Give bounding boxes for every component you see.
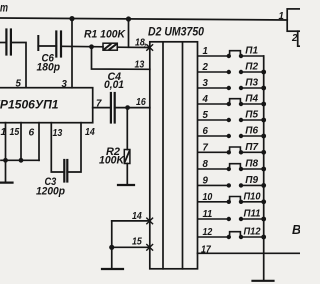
svg-text:П5: П5 (245, 110, 258, 121)
svg-text:11: 11 (203, 209, 213, 220)
svg-text:П10: П10 (244, 191, 261, 202)
switch П3 contacts (227, 86, 244, 90)
wire D2 pin 5 (198, 119, 264, 121)
wire R1 to pin 18 (117, 46, 150, 48)
wire D2 pin 4 (198, 103, 264, 105)
wire top supply rail (0, 18, 287, 20)
IC D2 UM3750 body (150, 42, 198, 269)
wire R2 to ground (126, 164, 128, 185)
node junction C4/R2 (125, 105, 130, 110)
resistor R1 100K (103, 43, 117, 50)
svg-text:2: 2 (291, 33, 298, 44)
svg-text:D2 UM3750: D2 UM3750 (148, 24, 204, 38)
svg-text:15: 15 (10, 127, 20, 138)
svg-text:15: 15 (132, 237, 142, 248)
switch П5 contacts (227, 118, 244, 122)
switch П8 contacts (227, 164, 244, 172)
ground center (102, 268, 123, 270)
wire D2 pin 9 (198, 184, 264, 186)
svg-text:6: 6 (29, 128, 35, 139)
node bus junction row 11 (261, 217, 266, 222)
svg-text:П1: П1 (245, 46, 258, 57)
wire pin 2 of T down and out (298, 31, 301, 46)
node bus junction row 12 (261, 235, 266, 240)
resistor R2 100K (124, 150, 130, 164)
pin 18 arrow (147, 45, 153, 51)
wire pin 15 of D2 (112, 246, 150, 248)
switch П6 contacts (227, 134, 244, 138)
wire pin 6 lead (38, 123, 40, 161)
wire pin 17 output (198, 252, 301, 254)
svg-text:13: 13 (135, 60, 145, 71)
wire D2 pin 10 (198, 201, 264, 203)
svg-text:П3: П3 (245, 78, 258, 89)
IC D1 КР1506УП1 body (0, 88, 93, 123)
svg-text:R1 100K: R1 100K (84, 28, 126, 40)
svg-text:П7: П7 (245, 142, 258, 153)
wire pin 14 of D2 (112, 220, 150, 222)
wire C3 to pin 14 lead (67, 123, 81, 172)
svg-text:16: 16 (136, 97, 146, 108)
wire D2 pin 1 (198, 55, 264, 57)
wire rail drop to pin 3 of D1 (71, 19, 73, 88)
svg-text:П2: П2 (245, 62, 258, 73)
svg-text:2: 2 (202, 62, 209, 73)
svg-text:7: 7 (203, 143, 209, 154)
svg-text:1: 1 (1, 127, 7, 138)
switch П2 contacts (227, 70, 244, 74)
wire node to pin 13 of D2 (92, 47, 150, 70)
svg-text:7: 7 (96, 99, 102, 110)
svg-text:6: 6 (203, 126, 209, 137)
ground right (253, 280, 274, 282)
svg-text:П4: П4 (245, 94, 258, 105)
svg-text:13: 13 (53, 128, 63, 139)
switch П1 contacts (227, 51, 244, 59)
node bus junction row 4 (261, 102, 266, 107)
capacitor C6 180p (37, 36, 39, 50)
wire pin 1 lead (5, 123, 7, 161)
svg-text:9: 9 (203, 176, 209, 187)
node junction on rail at x=72 (69, 16, 74, 21)
wire pin 15 lead (20, 123, 22, 161)
svg-text:12: 12 (203, 227, 213, 238)
node bus junction row 6 (261, 134, 266, 139)
svg-text:14: 14 (85, 127, 95, 138)
wire bottom bus of D1 (1, 159, 39, 161)
node junction on rail at x=128.5 (126, 16, 131, 21)
wire C5 to pin 5 (11, 43, 26, 88)
pin 15 arrow (147, 245, 153, 251)
capacitor C5 (left, label cut off) (0, 42, 6, 44)
wire D2 pin 12 (198, 236, 264, 238)
switch П12 contacts (227, 232, 244, 240)
pin 14 arrow (147, 218, 153, 224)
node bus junction row 8 (261, 167, 266, 172)
svg-text:180p: 180p (37, 62, 61, 74)
svg-text:3: 3 (203, 78, 209, 89)
svg-text:П12: П12 (244, 227, 261, 238)
switch bus vertical right (263, 56, 265, 280)
wire rail drop to R1 right node (128, 19, 130, 47)
wire pin 7 to C4 (93, 107, 111, 109)
switch П4 contacts (227, 99, 244, 107)
svg-text:17: 17 (201, 244, 211, 255)
node junction pin1/gnd (3, 158, 8, 163)
transistor T1 box (cut off at right edge) (287, 9, 305, 31)
node bus junction row 10 (261, 199, 266, 204)
svg-text:1: 1 (203, 46, 208, 57)
svg-text:0,01: 0,01 (104, 79, 124, 91)
svg-text:П11: П11 (244, 209, 261, 220)
svg-text:1: 1 (279, 11, 284, 22)
wire D2 pin 7 (198, 151, 264, 153)
svg-text:КР1506УП1: КР1506УП1 (0, 98, 59, 112)
node bus junction row 2 (261, 70, 266, 75)
wire pin14 node down (111, 221, 113, 269)
svg-text:8: 8 (203, 159, 209, 170)
svg-text:В: В (292, 223, 300, 237)
svg-text:1200p: 1200p (36, 186, 65, 198)
node bus junction row 9 (261, 183, 266, 188)
switch П11 contacts (227, 217, 244, 221)
svg-text:5: 5 (203, 110, 209, 121)
node junction pin15 net (109, 245, 114, 250)
node junction pin15 (19, 158, 24, 163)
wire C6 to R1 and pin 18 net (61, 45, 103, 48)
capacitor C3 1200p (63, 160, 65, 182)
node junction R1 left (89, 44, 94, 49)
wire pin 13 lead to C3 (51, 123, 64, 172)
wire junction down to R2 (126, 108, 128, 150)
node bus junction row 3 (261, 86, 266, 91)
svg-text:4: 4 (202, 94, 209, 105)
svg-text:m: m (0, 3, 8, 15)
svg-text:10: 10 (203, 192, 213, 203)
node bus junction row 5 (261, 118, 266, 123)
switch П7 contacts (227, 147, 244, 155)
ground under R2 (118, 184, 134, 186)
svg-text:,: , (143, 37, 147, 47)
svg-text:100K: 100K (99, 155, 125, 167)
wire D2 pin 11 (198, 218, 264, 220)
ground left (0, 182, 13, 184)
wire C4 to pin 16 (115, 107, 150, 109)
switch П9 contacts (227, 183, 244, 187)
capacitor C4 0,01 (110, 93, 112, 123)
svg-text:П6: П6 (245, 126, 258, 137)
svg-text:5: 5 (16, 79, 22, 90)
wire D2 pin 8 (198, 168, 264, 170)
wire D2 pin 3 (198, 87, 264, 89)
svg-text:П9: П9 (245, 175, 258, 186)
svg-text:3: 3 (62, 79, 68, 90)
wire D2 pin 2 (198, 71, 264, 73)
switch П10 contacts (227, 197, 244, 205)
svg-text:14: 14 (132, 211, 142, 222)
svg-text:П8: П8 (245, 159, 258, 170)
wire to left ground (5, 160, 7, 182)
wire D2 pin 6 (198, 135, 264, 137)
node bus junction row 7 (261, 150, 266, 155)
